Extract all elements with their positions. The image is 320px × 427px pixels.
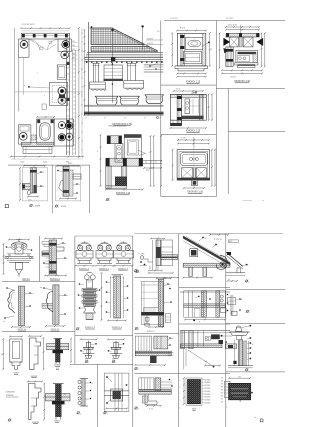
svg-text:1: 1 xyxy=(180,387,181,389)
BL2 shelf steps xyxy=(42,251,49,256)
detail E bottom marks xyxy=(28,196,38,198)
detail E horizontal member xyxy=(22,184,30,190)
window detail D1 upper window with oval xyxy=(185,37,202,49)
svg-text:Xst: Xst xyxy=(85,358,88,361)
roof tile hatch eave strip xyxy=(91,47,158,52)
svg-text:9: 9 xyxy=(1,354,2,356)
FR3 left arm hatched xyxy=(225,344,236,349)
detail C middle wall band xyxy=(106,158,143,166)
window detail D2 section arrow left xyxy=(224,38,230,45)
frame vline x74.9 (middle panel left) xyxy=(74,236,76,364)
window detail D1 right dim column xyxy=(209,33,211,66)
FR4 bottom tick xyxy=(239,400,241,402)
detail F bottom marks xyxy=(60,198,76,200)
roof eave lines xyxy=(87,52,163,54)
detail E leader notes xyxy=(40,171,42,173)
BL1 center body xyxy=(15,244,23,254)
frame hline y287.6 right panel xyxy=(179,287,230,289)
elevation left dimension line xyxy=(84,30,86,115)
BR2 right narrow rect below xyxy=(166,314,171,323)
parapet section BR2 top dim xyxy=(157,277,172,279)
BL2 bottom dim xyxy=(45,275,66,277)
window detail D4 outer box xyxy=(177,150,210,180)
window detail D2 right dim col xyxy=(261,33,263,66)
frame hline top of bottom cluster xyxy=(134,233,283,235)
plan lower-center arched window box xyxy=(37,119,54,144)
detail C right dim columns xyxy=(150,136,152,186)
svg-text:XXXXX: XXXXX xyxy=(147,38,154,40)
BL4 leader dots xyxy=(43,287,45,289)
window detail D4 bottom band xyxy=(177,178,210,180)
P3 right dim xyxy=(43,384,45,420)
FR3 dark marks xyxy=(233,361,236,364)
BR1 central wall strip xyxy=(156,240,161,266)
elevation base band xyxy=(84,112,164,114)
elevation central leader line xyxy=(111,29,113,31)
window plan detail D3 bottom dim xyxy=(170,127,206,129)
vertical separator right of detail F xyxy=(89,165,91,213)
svg-text:1: 1 xyxy=(80,413,81,415)
svg-text:1: 1 xyxy=(138,369,139,371)
FR3 side lines xyxy=(234,340,236,366)
roof ridge finial xyxy=(91,26,93,28)
BL1 lower drop xyxy=(16,263,23,270)
plan small rect above arch box xyxy=(42,104,46,109)
BR6 bottom dim xyxy=(147,405,161,407)
P2 right dim xyxy=(43,338,45,369)
BL2 bottom feet xyxy=(50,271,57,274)
plan right vertical dimension lines xyxy=(78,28,80,157)
svg-text:8 60 8: 8 60 8 xyxy=(180,28,185,30)
svg-text:X XX XXX: X XX XXX xyxy=(170,18,179,20)
plan small interior marks xyxy=(40,47,43,49)
BR1 scale mark xyxy=(136,270,138,272)
roof leader 2 xyxy=(141,25,143,27)
plan top dimension line xyxy=(21,27,69,29)
ornament section M1 xyxy=(87,272,93,273)
svg-text:1: 1 xyxy=(248,282,249,284)
svg-text:1: 1 xyxy=(11,421,12,423)
BL2 leader dots xyxy=(62,242,64,244)
cornice dark block xyxy=(111,58,115,62)
svg-text:40: 40 xyxy=(228,279,230,281)
detail C stair dark block xyxy=(115,177,127,186)
window detail D2 lower box xyxy=(236,51,258,63)
svg-text:XXXX: XXXX xyxy=(35,206,41,208)
BM7 right marks xyxy=(85,382,90,384)
BR3 interior leader dots xyxy=(198,296,200,298)
A1 side dim xyxy=(70,339,72,362)
BR2 leader dots right xyxy=(167,283,169,285)
BR4 bottom dim xyxy=(135,364,165,366)
BR4 right hatched block xyxy=(154,336,168,349)
flashing detail FR2 xyxy=(230,295,232,316)
svg-text:XXXXXX: XXXXXX xyxy=(6,392,15,394)
vertical separator between details E and F xyxy=(51,165,53,213)
roof tile hatch upper plane xyxy=(91,28,145,45)
BM8 bottom ticks xyxy=(106,408,127,410)
wall junction section BR3 outer box xyxy=(184,291,226,318)
sheet revision square symbol xyxy=(5,205,8,208)
svg-text:z: z xyxy=(248,265,249,267)
elevation planter under column B xyxy=(124,81,144,89)
M2 leader dots left xyxy=(106,281,108,283)
separator line under floor plan xyxy=(8,164,90,166)
FR1 scale mark xyxy=(245,280,247,282)
left tick dimension column xyxy=(183,378,185,404)
svg-text:250: 250 xyxy=(238,376,241,378)
dark speckled elevation box BR7 xyxy=(188,380,201,404)
frame vline x178.7 right-mid divider xyxy=(178,234,180,427)
plan mid small rect detail xyxy=(57,65,66,79)
window plan detail D3 bottom band xyxy=(182,116,204,119)
detail F right stub xyxy=(73,174,81,179)
BR3 central hatched post xyxy=(202,291,207,318)
svg-text:d: d xyxy=(159,63,160,65)
M1 leader dots xyxy=(79,283,81,285)
svg-text:XXXXX: XXXXX xyxy=(204,379,211,381)
svg-text:1: 1 xyxy=(33,206,34,208)
FR3 leader dots xyxy=(250,337,252,339)
svg-text:op: op xyxy=(40,287,42,289)
window detail D1 lower panel xyxy=(183,52,201,64)
BL1 leader dots xyxy=(6,246,8,248)
FR3 top cap xyxy=(230,332,248,336)
plan leader dot xyxy=(28,86,30,88)
M1 base xyxy=(84,307,96,314)
svg-text:Xa: Xa xyxy=(42,172,44,174)
BR2 right wall column hatched xyxy=(158,280,164,327)
svg-text:X1 X2 X3 X4 X5: X1 X2 X3 X4 X5 xyxy=(22,24,35,26)
frame hline y333.5 left-right-mid xyxy=(134,333,178,335)
M2 side vertical lines xyxy=(110,276,112,318)
faint dashes far-right mid xyxy=(243,200,252,202)
elevation small circle mark xyxy=(156,116,158,118)
detail E left dim xyxy=(19,168,21,200)
plan right ladder annotation rails xyxy=(72,50,74,155)
wall cornice detail F (below plan, right) xyxy=(57,165,79,167)
svg-text:Xb: Xb xyxy=(42,186,44,188)
frame hline y364.3 middle panel xyxy=(70,363,133,365)
frame vline x225.8 far right divider xyxy=(225,234,227,427)
scale mark right of ornament O3 xyxy=(135,270,137,272)
bolt fixing detail BM5 xyxy=(81,338,97,340)
FR1 base and posts xyxy=(226,272,245,274)
window detail D4 center axis xyxy=(193,137,195,149)
BR5 left edge post xyxy=(180,331,185,349)
window detail D4 top dims xyxy=(178,139,209,141)
frame hline y371.9 far right xyxy=(226,371,285,373)
frame hline y335.7 middle panel xyxy=(75,335,133,337)
svg-text:3: 3 xyxy=(81,94,82,96)
roof fascia band xyxy=(85,56,164,58)
scale marks near detail C label xyxy=(106,198,108,200)
detail C top-left thick wall xyxy=(107,136,122,144)
window detail D2 section arrow right xyxy=(257,38,263,45)
svg-text:tu: tu xyxy=(169,283,170,286)
ornament elevation O1 xyxy=(84,241,86,244)
plan top-right corner block xyxy=(58,39,72,51)
BM8 scale mark xyxy=(104,412,106,414)
frame vertical x228 (far right, empty panel) xyxy=(227,89,229,194)
detail C corridor right wall xyxy=(122,166,127,186)
slope right gutter curl xyxy=(216,255,227,269)
window detail D2 pane right with X xyxy=(243,37,253,47)
plan interior door arcs xyxy=(29,40,40,51)
svg-text:X 1:5: X 1:5 xyxy=(149,409,153,411)
frame hline y324 right panel xyxy=(179,323,230,325)
BM7 scale mark xyxy=(77,412,79,414)
svg-text:XXXX: XXXX xyxy=(61,206,67,208)
BM7 top/bottom caps xyxy=(80,378,89,380)
detail C right opening dim xyxy=(144,167,161,169)
frame bottom of right panels xyxy=(161,196,217,198)
frame hline y323.6 far right xyxy=(226,323,285,325)
svg-text:XXXXX: XXXXX xyxy=(204,391,211,393)
window detail D1 outer box xyxy=(177,33,206,66)
svg-text:J: J xyxy=(44,95,45,97)
FR2 scale mark xyxy=(246,310,248,312)
window detail D1 bottom dims xyxy=(177,73,206,75)
frame line under D1 xyxy=(161,84,217,86)
BR2 label and scale xyxy=(135,327,137,329)
frame vline x132.8 (middle panel right) xyxy=(132,236,134,427)
BR3 right bolt details xyxy=(220,295,223,298)
BR6 beam hatched band xyxy=(139,390,172,395)
window detail D4 upper window rounded xyxy=(181,153,208,166)
svg-text:mn: mn xyxy=(31,293,34,295)
window detail D1 left wall strip xyxy=(180,33,184,66)
plan bottom dimension line xyxy=(11,156,83,158)
BR3 left double vlines xyxy=(187,291,189,318)
plan bottom hatched strip xyxy=(21,142,54,146)
M2 leader dots right xyxy=(127,285,129,287)
svg-text:X22: X22 xyxy=(72,54,75,56)
svg-text:X31: X31 xyxy=(72,58,75,60)
window detail D2 center mullion xyxy=(239,37,242,47)
FR3 scale mark xyxy=(246,369,248,371)
window detail D2 top wall band xyxy=(226,33,259,37)
svg-text:1: 1 xyxy=(139,272,140,274)
BR1 lower marks xyxy=(149,266,151,270)
BL1 scroll circles xyxy=(11,244,17,250)
elevation right railing xyxy=(144,64,164,66)
window detail D4 right dims xyxy=(211,150,213,186)
BR1 right room box xyxy=(161,240,173,266)
window detail D2 left dim col xyxy=(219,33,221,67)
BR5 vertical posts xyxy=(188,331,193,349)
M1 stacked bars xyxy=(82,289,97,292)
svg-text:XXXXX: XXXXX xyxy=(204,397,211,399)
elevation column B xyxy=(127,64,129,81)
plan left boundary line xyxy=(14,28,16,160)
frame hline y277.3 left-right-mid xyxy=(134,276,178,278)
svg-text:1: 1 xyxy=(180,380,181,382)
svg-text:X12: X12 xyxy=(72,41,75,43)
FR3 top urn xyxy=(235,326,242,331)
slope horizontal eave beam hatched xyxy=(183,263,230,267)
svg-text:Xst: Xst xyxy=(112,358,115,361)
svg-text:XXXXX: XXXXX xyxy=(204,382,211,384)
BR4 left louvre box xyxy=(135,336,151,351)
detail F moulding curve xyxy=(59,180,63,192)
anchor detail A1 (dark T-section) xyxy=(47,344,69,350)
svg-text:1: 1 xyxy=(138,409,139,411)
BR3 lower inner box xyxy=(195,309,201,318)
elevation window W1 xyxy=(104,65,123,79)
elevation planter pots row xyxy=(95,96,118,105)
BM8 inner verticals xyxy=(114,373,116,411)
slope leader dots top xyxy=(202,237,204,239)
BL1 horizontal arms xyxy=(5,256,33,258)
BR4 scale mark xyxy=(135,367,137,369)
svg-text:1: 1 xyxy=(58,207,59,209)
svg-text:s1: s1 xyxy=(92,383,94,385)
svg-text:XXXXX: XXXXX xyxy=(204,388,211,390)
elevation right leader notes xyxy=(146,39,163,41)
slope diagonal rafter band xyxy=(183,236,230,265)
window detail D2 sill steps xyxy=(235,63,258,68)
plan box with two columns xyxy=(50,82,68,105)
detail C corridor left wall xyxy=(106,166,111,188)
svg-text:Xc: Xc xyxy=(78,184,80,186)
ornament finial detail BL1 xyxy=(18,239,20,244)
P1 left dim bracket xyxy=(2,339,4,369)
BL4 bottom dim xyxy=(46,325,64,327)
svg-text:1: 1 xyxy=(180,393,181,395)
FR4 dark speckled section box xyxy=(229,383,251,400)
window detail D1 leader xyxy=(208,42,210,44)
svg-text:120 120: 120 120 xyxy=(230,77,236,79)
BL3 ornament profile curve xyxy=(8,290,15,313)
svg-text:X8: X8 xyxy=(64,394,66,396)
plan wall stub between lower boxes xyxy=(31,135,36,140)
BR3 right hatched post xyxy=(216,291,220,318)
window detail D4 bottom dim xyxy=(184,187,204,189)
window detail D2 bottom dims xyxy=(222,69,262,71)
FR4 dimension bracket xyxy=(229,377,250,379)
svg-text:XX XXXX: XX XXXX xyxy=(226,18,234,20)
frame vline x39.3 (bottom-left divider) xyxy=(38,236,40,282)
detail F wall strip xyxy=(63,166,69,196)
window detail D4 lower X panes xyxy=(182,168,193,178)
svg-text:1: 1 xyxy=(115,362,116,364)
window detail D4 pedestal below xyxy=(192,180,198,186)
svg-text:gh: gh xyxy=(64,243,66,245)
anchor detail A2 (dark T-section) xyxy=(45,394,70,401)
svg-text:XXXXX: XXXXX xyxy=(6,395,14,397)
window plan detail D3 right dim xyxy=(208,94,210,120)
FR3 neck xyxy=(237,336,242,340)
detail C window leader arrow xyxy=(138,150,146,156)
plan column circle B (dark) xyxy=(62,41,70,49)
BR5 horizontal beam hatched xyxy=(181,344,223,348)
elevation left wall line xyxy=(87,22,89,115)
roof gap band lines xyxy=(91,44,145,46)
frame hline y373.3 right panel xyxy=(134,372,230,374)
window detail D2 pane left with X xyxy=(230,37,239,47)
BL3 bottom dim xyxy=(12,326,30,328)
plan lower-left column block xyxy=(19,125,31,144)
moulding profile P1 (rectangular) xyxy=(10,336,22,338)
slope vertical posts xyxy=(189,267,193,276)
svg-text:XXXXX: XXXXX xyxy=(204,403,211,405)
BL2 left rung marks xyxy=(46,257,50,259)
window detail D2 left wall leg xyxy=(226,47,233,67)
BL4 ornament profile xyxy=(46,291,53,312)
BR1 left ornament pieces xyxy=(140,256,144,260)
scale mark bottom-left xyxy=(8,419,10,421)
BR6 right extension lines xyxy=(161,381,173,383)
wall cornice detail E (below plan, left) xyxy=(24,165,45,167)
BL3 leader dots left xyxy=(6,287,8,289)
detail C left dimension column xyxy=(100,135,102,186)
BR4 leader dots xyxy=(169,337,171,339)
plan column circle C xyxy=(61,51,69,59)
elevation bottom tick marks xyxy=(85,117,87,119)
BR2 bottom dim xyxy=(149,326,163,328)
slope bottom dim xyxy=(183,277,212,279)
BL4 horizontal member xyxy=(42,303,53,308)
BR1 top dim xyxy=(151,238,164,240)
BR2 interior hlines xyxy=(141,291,158,293)
frame vline x97.4 middle bottom divider xyxy=(96,364,98,427)
window plan detail D3 left wall xyxy=(177,94,182,123)
verge slope detail FR1 xyxy=(226,252,243,266)
window plan detail D3 inner divider lines xyxy=(192,99,194,114)
plan top wall band xyxy=(21,33,69,39)
BM8 dark center blob xyxy=(113,391,121,399)
roof slope edge xyxy=(112,28,158,51)
FR3 hatched columns xyxy=(238,340,242,366)
FR4 leader dot xyxy=(251,392,253,394)
slope top right dims xyxy=(210,234,228,236)
svg-text:1: 1 xyxy=(249,370,250,372)
BL3 wall hatched strip xyxy=(18,286,24,325)
BR5 leader diagonals xyxy=(188,350,213,366)
frame hline y331.6 bottom-left xyxy=(2,331,75,333)
BR4 right thin lines xyxy=(168,352,174,354)
BR6 central hatched post xyxy=(155,378,161,391)
window plan detail D3 top dim xyxy=(174,90,203,92)
svg-text:Xd: Xd xyxy=(171,338,173,340)
window detail D1 left dim column xyxy=(171,33,173,66)
svg-text:1: 1 xyxy=(80,329,81,331)
BR2 inner ledge rect xyxy=(144,308,159,313)
frame hline y289.3 far right xyxy=(226,288,285,290)
svg-text:5: 5 xyxy=(211,49,212,51)
window plan detail D3 inner window xyxy=(185,99,190,114)
detail F hatched second strip xyxy=(69,170,73,196)
window plan detail D3 top hatched band xyxy=(170,94,206,97)
parapet section BR2 outer box xyxy=(141,282,163,325)
svg-text:X XXX XX: X XXX XX xyxy=(214,239,223,241)
BL1 top dim bracket xyxy=(9,239,29,241)
BR6 scale mark xyxy=(135,407,137,409)
svg-text:XXXXXXXXXXXXX: XXXXXXXXXXXXX xyxy=(109,125,128,127)
svg-text:XXXX 1:5: XXXX 1:5 xyxy=(147,331,155,333)
connection detail BM8 box xyxy=(104,373,129,411)
svg-text:2400: 2400 xyxy=(43,162,47,164)
svg-text:XXXXX: XXXXX xyxy=(204,385,211,387)
window detail D2 center axis xyxy=(239,25,241,37)
svg-text:1: 1 xyxy=(88,362,89,364)
svg-text:XXXXX: XXXXX xyxy=(147,43,154,45)
detail C bottom dimension rows xyxy=(106,189,143,191)
svg-text:xy: xy xyxy=(205,361,207,363)
frame hline y281.5 bottom-left xyxy=(2,281,75,283)
bolt fixing detail BM6 xyxy=(108,338,124,340)
